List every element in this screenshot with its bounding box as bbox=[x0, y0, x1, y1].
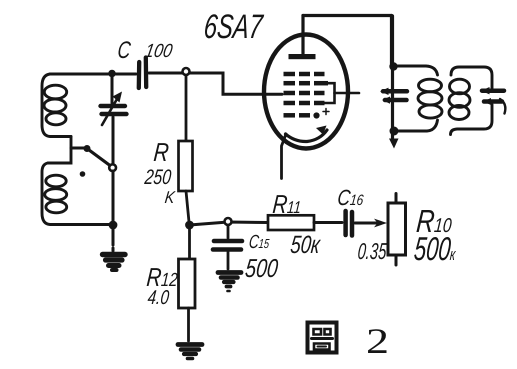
capacitor C15 (500) bbox=[213, 225, 242, 269]
node B+ arrow down bbox=[389, 139, 399, 149]
tube grid row 1 bbox=[284, 72, 325, 77]
ground G2 below C15 bbox=[218, 273, 241, 292]
tube grid row 3 bbox=[284, 91, 325, 96]
ground G3 below R12 bbox=[178, 345, 202, 359]
capacitor C16 (0.35) bbox=[346, 211, 352, 236]
wire junction to R11 bbox=[190, 222, 269, 225]
tube grid row 2 bbox=[284, 81, 329, 86]
wire arrow to R10 bbox=[355, 222, 376, 225]
node switch contact circle bbox=[109, 164, 116, 171]
node junction R1/R12 bbox=[185, 221, 194, 230]
ground G1 bbox=[103, 248, 126, 270]
label R bbox=[152, 137, 170, 168]
wire trimmer CT2 adjust tail bbox=[500, 99, 505, 114]
wire switch arm bbox=[87, 149, 110, 166]
wire R12 top lead bbox=[188, 225, 191, 259]
tube V1 6SA7 envelope bbox=[264, 35, 348, 149]
wire R1 top lead bbox=[185, 75, 188, 141]
tube cathode arrowhead bbox=[316, 126, 327, 135]
label 50K bbox=[289, 231, 321, 260]
coil L2 lower winding bbox=[42, 163, 110, 225]
node trimmer CT1 arrowhead lower bbox=[382, 97, 390, 104]
node trimmer CT1 arrowhead bbox=[380, 88, 389, 95]
wire right drop to transformer bbox=[390, 16, 393, 65]
tube plate bar bbox=[289, 54, 316, 59]
label C15 bbox=[248, 232, 271, 254]
wire top horizontal B+ bbox=[303, 14, 392, 17]
wire cathode lead bbox=[282, 134, 287, 179]
node terminal above C15 bbox=[225, 218, 232, 225]
wire R11 to C16 bbox=[314, 221, 342, 224]
coil L1 upper antenna winding bbox=[42, 74, 71, 137]
node junction primary top bbox=[389, 62, 397, 70]
label 500a bbox=[244, 253, 280, 284]
node junction L2 bottom bbox=[109, 221, 118, 230]
label figure number 2 bbox=[366, 320, 389, 362]
node junction primary bottom bbox=[390, 127, 399, 136]
wire R10 bottom stub bbox=[395, 255, 398, 265]
tube screen grid bracket bbox=[325, 83, 335, 103]
label 0.35 bbox=[357, 238, 388, 265]
label C16 bbox=[336, 185, 365, 211]
small dot terminal bbox=[80, 171, 86, 177]
wire C to grid step bbox=[149, 73, 282, 94]
resistor R11 50K bbox=[268, 215, 314, 230]
resistor R1 250K bbox=[179, 141, 193, 191]
wire tuning line to ground bbox=[112, 171, 115, 245]
wire screen stub right bbox=[335, 92, 360, 95]
tube plus mark bbox=[323, 109, 329, 115]
wire R1 bottom lead bbox=[186, 191, 189, 222]
capacitor trimmer CT1 plates bbox=[383, 91, 407, 100]
tube grid row 5 bbox=[284, 113, 311, 118]
wire R12 bottom lead bbox=[187, 308, 190, 341]
wire tap stub bbox=[71, 147, 84, 150]
node terminal circle right of C bbox=[183, 68, 190, 75]
node switch pivot bbox=[84, 145, 91, 152]
coil T1 primary bbox=[394, 66, 442, 131]
wire coil tap segment bbox=[48, 137, 71, 164]
capacitor trimmer CT2 plates bbox=[482, 91, 504, 102]
label figure character bbox=[308, 323, 337, 353]
wire top-left horizontal bbox=[50, 73, 136, 76]
label 6SA7 bbox=[202, 8, 264, 47]
wire transformer feed line bbox=[391, 16, 394, 139]
variable capacitor VC1 bbox=[101, 76, 127, 163]
label R12 bbox=[145, 262, 179, 293]
label 250 bbox=[143, 166, 172, 190]
node trimmer CT2 arrowhead bbox=[481, 87, 490, 94]
label 4.0 bbox=[147, 287, 171, 310]
resistor R12 4.0 bbox=[179, 259, 196, 308]
tube grid row 4 bbox=[284, 101, 325, 106]
label R10 bbox=[415, 203, 453, 240]
tube cathode arc bbox=[286, 130, 328, 142]
wire top cap lead bbox=[301, 16, 304, 54]
wire R10 top stub bbox=[395, 194, 398, 204]
coil T1 secondary bbox=[449, 67, 492, 135]
label C bbox=[116, 37, 132, 65]
node junction at C left bbox=[108, 70, 116, 78]
capacitor C (100) bbox=[139, 58, 146, 89]
label K bbox=[164, 188, 176, 208]
node trimmer CT2 arrowhead lower bbox=[483, 98, 491, 105]
resistor R10 500k bbox=[388, 203, 406, 255]
node arrowhead into R10 bbox=[374, 219, 387, 228]
label R11 bbox=[271, 189, 302, 220]
label 500k bbox=[412, 230, 457, 268]
label 100 bbox=[143, 41, 174, 63]
tube grid row 5 dot bbox=[313, 112, 319, 118]
